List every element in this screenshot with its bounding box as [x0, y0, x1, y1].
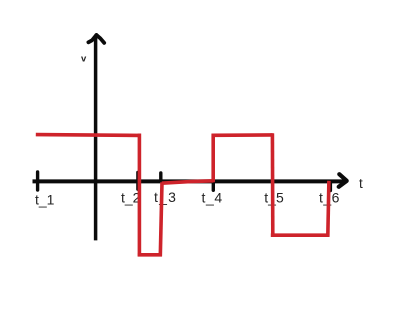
red waveform: high segment t_1..t_2 [36, 133, 330, 256]
wave high segment left [36, 133, 140, 137]
wave falling edge at t_2 [138, 134, 142, 257]
svg-text:v: v [81, 54, 87, 65]
svg-text:t_3: t_3 [154, 189, 177, 205]
tick t_3 [159, 173, 162, 182]
wave falling edge at t_5 [271, 133, 275, 237]
tick t_6 [329, 183, 332, 191]
wave rising edge at t_6 [328, 181, 329, 237]
tick t_2 [136, 172, 139, 189]
svg-text:t: t [359, 176, 363, 191]
svg-text:t_4: t_4 [202, 189, 223, 205]
wave rising edge at t_4 [211, 134, 215, 183]
wave low segment t_5..t_6 [271, 233, 330, 237]
x-axis (t axis) line [33, 179, 345, 183]
tick t_4 [212, 182, 215, 190]
tick t_1 [36, 172, 39, 190]
wave rising edge at t_3 [160, 182, 162, 256]
wave high segment t_4..t_5 [212, 133, 273, 137]
y-axis (v axis) line [94, 36, 98, 240]
svg-text:t_1: t_1 [35, 192, 55, 208]
x-axis arrowhead [339, 174, 347, 187]
wave low segment t_2..t_3 [138, 253, 162, 257]
y-axis arrowhead [88, 35, 104, 43]
wave zero segment t_3..t_4 [162, 181, 214, 183]
